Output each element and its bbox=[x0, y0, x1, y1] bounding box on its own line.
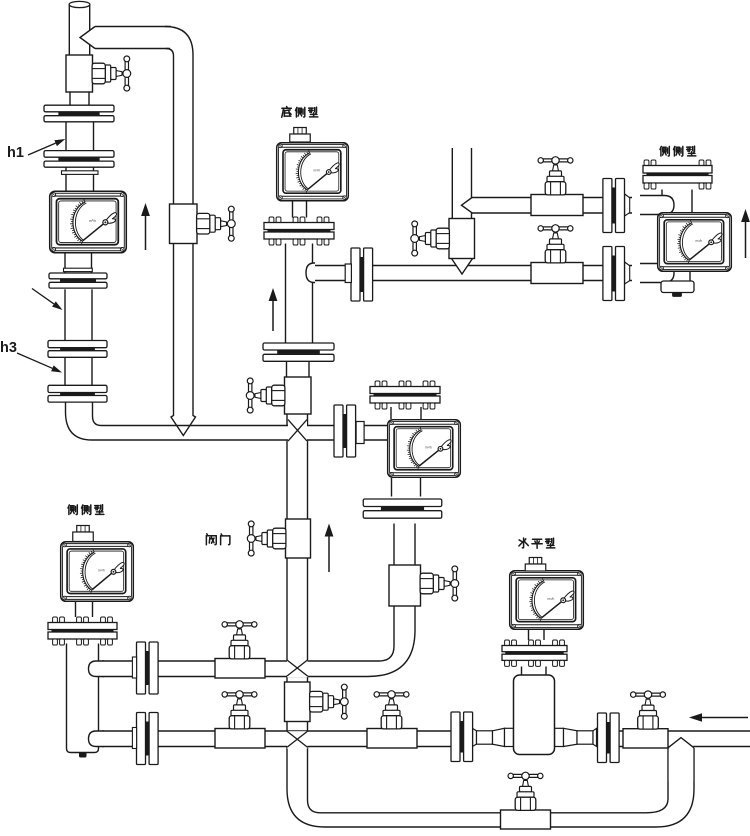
svg-text:m³/h: m³/h bbox=[696, 239, 703, 243]
svg-text:m³/h: m³/h bbox=[89, 219, 96, 223]
svg-text:m³/h: m³/h bbox=[425, 446, 432, 450]
svg-text:m³/h: m³/h bbox=[548, 597, 555, 601]
svg-text:h1: h1 bbox=[7, 145, 24, 161]
svg-text:m³/h: m³/h bbox=[98, 568, 105, 572]
svg-text:h3: h3 bbox=[0, 340, 17, 356]
svg-text:m³/h: m³/h bbox=[313, 169, 320, 173]
